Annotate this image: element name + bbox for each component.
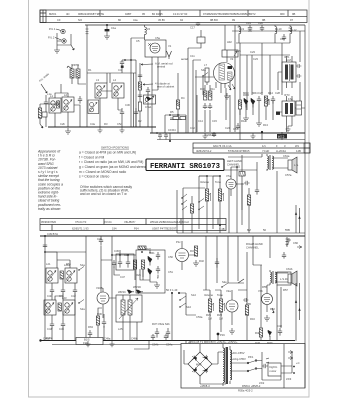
svg-text:C19: C19 xyxy=(246,21,251,25)
wire: pickup screen box xyxy=(57,33,71,47)
svg-text:R55: R55 xyxy=(262,285,267,289)
wire: coil returns to chassis xyxy=(46,105,80,127)
IF can C14 box xyxy=(116,254,134,270)
svg-text:and on and so on closed on T w: and on and so on closed on T w xyxy=(80,192,127,196)
svg-text:r = Closed on radio (as on MW,: r = Closed on radio (as on MW, LW and FM… xyxy=(79,160,143,164)
diode MR8 xyxy=(127,290,134,294)
wire: chassis bus right (top section) xyxy=(150,132,305,134)
wire: VR7a to grid xyxy=(72,78,86,84)
capacitor C8 xyxy=(170,115,182,120)
svg-text:V1: V1 xyxy=(168,44,172,48)
wire: pot feeds xyxy=(199,176,220,233)
svg-text:C24b R9: C24b R9 xyxy=(205,133,216,137)
speaker LS1b xyxy=(288,274,292,283)
svg-text:C66: C66 xyxy=(293,241,298,245)
svg-text:RV2: RV2 xyxy=(217,313,223,317)
svg-text:CF: CF xyxy=(57,18,61,22)
wire: bottom bus second xyxy=(52,344,181,346)
svg-text:RIGHT-HAND: RIGHT-HAND xyxy=(246,242,263,246)
svg-text:trally as shown: trally as shown xyxy=(38,207,61,211)
svg-text:IFT3: IFT3 xyxy=(284,93,290,97)
svg-text:L2: L2 xyxy=(64,93,67,97)
trimmer C3 xyxy=(42,112,47,117)
diode MR6 xyxy=(268,330,272,337)
svg-text:BJ 94/95: BJ 94/95 xyxy=(152,12,163,16)
label cluster: top section component refs xyxy=(47,36,290,130)
capacitor C52 xyxy=(155,328,159,338)
wire: L25 returns xyxy=(123,295,137,341)
capacitor C5/4 xyxy=(262,364,268,368)
resistor R61 xyxy=(60,271,63,279)
switch S1a xyxy=(79,267,84,271)
svg-text:L1a: L1a xyxy=(47,92,52,96)
svg-text:aerial: aerial xyxy=(181,57,188,61)
svg-text:a = Closed at 4PM (as on MW an: a = Closed at 4PM (as on MW and LW) xyxy=(79,151,136,155)
ground: V2a cathode xyxy=(229,328,235,334)
wire: control feeds xyxy=(206,236,247,290)
svg-text:s = Closed on stereo: s = Closed on stereo xyxy=(79,175,109,179)
svg-text:SWITCH POSITIONS: SWITCH POSITIONS xyxy=(101,146,129,150)
svg-text:F64: F64 xyxy=(134,226,139,230)
svg-text:S1a: S1a xyxy=(80,263,85,267)
potentiometer VR1 xyxy=(38,108,41,118)
potentiometer RV1 xyxy=(208,299,211,312)
wire: switch to pots xyxy=(186,305,196,315)
capacitor C5b xyxy=(148,43,151,46)
resistor R4 xyxy=(176,100,179,109)
svg-text:MR5: MR5 xyxy=(196,363,202,367)
capacitor C20 xyxy=(260,25,264,31)
svg-text:C42: C42 xyxy=(71,294,76,298)
wire: V10B bias xyxy=(98,308,104,341)
svg-text:C46d: C46d xyxy=(43,337,50,341)
junction: det dots xyxy=(111,254,113,256)
coil L12 xyxy=(289,25,292,36)
svg-text:C47: C47 xyxy=(120,275,125,279)
svg-text:C5a: C5a xyxy=(155,36,160,40)
coil L3 (osc coil box) xyxy=(95,83,107,98)
svg-text:97/2B29/06/7BUR3B07D/B05U0995U: 97/2B29/06/7BUR3B07D/B05U0995U/B0T2 xyxy=(203,12,256,16)
wire: det row links xyxy=(101,255,143,280)
wire: audio top rail xyxy=(228,154,262,157)
svg-text:C4: C4 xyxy=(118,68,122,72)
capacitor C19 xyxy=(248,25,252,31)
capacitor C30 xyxy=(120,108,124,127)
capacitor C27 xyxy=(257,96,261,104)
svg-text:9B BO: 9B BO xyxy=(210,18,218,22)
coil L23 (AM coil) xyxy=(44,300,56,315)
wire: tuner returns xyxy=(45,252,75,341)
svg-text:A02: A02 xyxy=(227,40,232,44)
label: FERRANTI SRG1073 model box xyxy=(146,159,224,171)
capacitor C44 xyxy=(50,315,54,329)
svg-text:5T/6UNF/2T6BU5: 5T/6UNF/2T6BU5 xyxy=(228,149,250,153)
link box B1 xyxy=(76,338,103,345)
ground: detector xyxy=(243,115,249,121)
svg-text:L10: L10 xyxy=(277,27,282,31)
svg-text:motor: motor xyxy=(270,369,277,373)
svg-text:C34: C34 xyxy=(97,237,102,241)
wire: AGC rail vertical xyxy=(86,25,88,127)
svg-text:F.M.: F.M. xyxy=(288,97,293,101)
wire: coupling net xyxy=(249,162,259,233)
svg-text:C44: C44 xyxy=(47,327,52,331)
coil L9 xyxy=(238,25,241,36)
switch S2a xyxy=(79,300,84,304)
svg-text:50 F 1.4F: 50 F 1.4F xyxy=(166,288,178,292)
svg-text:C15: C15 xyxy=(212,119,217,123)
capacitor C6 xyxy=(138,75,142,77)
capacitor C47 xyxy=(118,258,122,268)
ground: chassis stubs xyxy=(86,127,256,347)
svg-text:C41: C41 xyxy=(59,294,64,298)
junction: HT bus dot xyxy=(44,235,46,237)
svg-text:P16: P16 xyxy=(220,333,225,337)
diode MR2 xyxy=(148,268,152,278)
wire: speaker leads right xyxy=(275,273,288,282)
wire: bottom bus xyxy=(40,340,295,342)
wire: right vertical pair xyxy=(134,60,137,127)
secondary loop box xyxy=(296,101,302,115)
wire: mains step xyxy=(134,341,149,349)
wire: output arrows xyxy=(288,351,293,360)
resistor R6 xyxy=(180,117,186,120)
resistor R5 xyxy=(173,117,179,120)
coil L2 (tuning coil box) xyxy=(62,97,74,112)
table: component chart strip (top) xyxy=(40,10,307,23)
potentiometer R14 xyxy=(264,96,267,106)
svg-text:80: 80 xyxy=(118,18,121,22)
svg-text:CHANNEL: CHANNEL xyxy=(246,246,259,250)
capacitor C4a blob xyxy=(121,66,124,68)
switch S1b xyxy=(199,199,204,210)
svg-text:C48: C48 xyxy=(277,324,282,328)
wire: secondary wiring xyxy=(230,352,262,380)
capacitor C28 xyxy=(271,96,275,104)
wire: det links xyxy=(148,93,186,133)
svg-text:R32: R32 xyxy=(199,259,204,263)
tube V2 (frequency changer) xyxy=(214,63,235,84)
fuse F5/2 xyxy=(248,369,256,372)
capacitor C41 xyxy=(61,279,65,295)
svg-text:V2a: V2a xyxy=(226,289,231,293)
coil L21 (FM RF coil) xyxy=(46,268,58,283)
svg-text:Volume: Volume xyxy=(204,293,213,297)
IF transformer L8 (above V2) xyxy=(222,50,238,57)
capacitor C46 xyxy=(88,330,92,338)
svg-text:96BU24P2K8T 9B/TE: 96BU24P2K8T 9B/TE xyxy=(78,12,104,16)
wire: PSU feeds xyxy=(186,341,190,344)
svg-text:W5/H0.29/B6/A5H2A0/H0.63 H2: W5/H0.29/B6/A5H2A0/H0.63 H2 xyxy=(150,220,189,224)
wire: mid bus above bottom section xyxy=(40,235,305,237)
svg-text:94BT: 94BT xyxy=(125,12,132,16)
resistor R24 xyxy=(133,260,136,269)
capacitor C38 xyxy=(43,245,47,247)
svg-text:55B: 55B xyxy=(285,228,290,232)
capacitor C63 xyxy=(282,252,286,259)
svg-text:C5: C5 xyxy=(136,39,140,43)
wire: switch loop lines xyxy=(236,43,290,132)
svg-text:NO: NO xyxy=(78,18,82,22)
svg-text:R61: R61 xyxy=(66,262,71,266)
switch S2e xyxy=(222,283,228,287)
resistor R40 xyxy=(190,204,193,213)
svg-text:g = Closed on gram (as on MONO: g = Closed on gram (as on MONO and stere… xyxy=(79,165,147,169)
svg-text:7/5.04 T0: 7/5.04 T0 xyxy=(75,220,87,224)
svg-text:C5c: C5c xyxy=(117,122,122,126)
wire: right channel rails xyxy=(253,236,270,265)
ratio detector screen box xyxy=(136,250,165,293)
svg-text:P1c: P1c xyxy=(176,240,181,244)
label cluster: bottom section component refs xyxy=(46,247,275,345)
svg-text:L7: L7 xyxy=(204,63,207,67)
wire: V2 anode drop xyxy=(224,25,226,50)
capacitor C4 xyxy=(120,60,124,73)
svg-text:S2e: S2e xyxy=(222,280,227,284)
FM tuner unit box xyxy=(145,40,166,57)
svg-text:95: 95 xyxy=(142,12,145,16)
transformer T2b (output) xyxy=(270,270,272,285)
coil L1 (tuning coil box) xyxy=(49,98,61,113)
svg-text:C54a: C54a xyxy=(166,343,173,347)
svg-text:C27: C27 xyxy=(258,91,263,95)
capacitor C35 xyxy=(112,260,116,268)
junction: +C terminal 2 xyxy=(293,372,295,374)
resistor R44 xyxy=(239,172,245,177)
svg-text:MR6: MR6 xyxy=(267,341,273,345)
wire: V2 cathode arrows xyxy=(228,84,235,90)
power supply unit enclosure xyxy=(181,344,305,389)
resistor R10 xyxy=(204,91,207,100)
capacitor C15 xyxy=(208,103,212,109)
svg-text:R48: R48 xyxy=(255,341,260,345)
svg-text:7.4B: 7.4B xyxy=(219,227,225,231)
svg-text:DC-C55V: DC-C55V xyxy=(233,351,245,355)
svg-text:MR3: MR3 xyxy=(243,91,249,95)
label +C arrow xyxy=(297,246,302,249)
svg-text:V10B: V10B xyxy=(96,286,103,290)
svg-text:45 86: 45 86 xyxy=(158,18,165,22)
svg-text:05/963/7820: 05/963/7820 xyxy=(41,220,56,224)
svg-text:4M61/97CL2: 4M61/97CL2 xyxy=(196,149,212,153)
wire: osc feedback xyxy=(197,82,210,132)
svg-text:L9: L9 xyxy=(241,27,244,31)
svg-text:194: 194 xyxy=(112,226,117,230)
svg-text:C49b: C49b xyxy=(131,337,138,341)
svg-text:rear of cabinet: rear of cabinet xyxy=(157,85,174,89)
svg-text:99: 99 xyxy=(232,18,235,22)
svg-text:C20: C20 xyxy=(258,21,263,25)
svg-text:S4a: S4a xyxy=(201,68,206,72)
transformer T2a (output) xyxy=(267,154,269,171)
svg-text:C45: C45 xyxy=(59,327,64,331)
socket PU1 xyxy=(61,29,65,33)
potentiometer RV2 xyxy=(219,299,222,312)
svg-text:LEFT-HAND: LEFT-HAND xyxy=(227,159,242,163)
resistor R1a xyxy=(57,101,60,108)
svg-text:L21: L21 xyxy=(46,262,51,266)
svg-text:m = Closed on MONO and radio: m = Closed on MONO and radio xyxy=(79,170,126,174)
label HT2 xyxy=(277,134,287,139)
wire: feedback arrows xyxy=(295,212,301,219)
capacitor C10 xyxy=(146,87,150,94)
coil L2b (wave band coil) xyxy=(88,100,99,114)
capacitor C54c xyxy=(151,334,155,341)
capacitor C40 xyxy=(50,283,54,295)
wire: C38 link rail xyxy=(45,251,86,253)
svg-text:R48: R48 xyxy=(255,331,260,335)
svg-text:R52: R52 xyxy=(270,307,275,311)
wire: osc link y60 xyxy=(122,59,136,61)
wire: PSU internal rails xyxy=(184,344,292,388)
diode MR3 xyxy=(244,98,248,108)
svg-text:P.U.2: P.U.2 xyxy=(48,36,55,40)
capacitor C48 xyxy=(278,328,282,336)
svg-text:R1: R1 xyxy=(88,68,92,72)
junction: bus left dot xyxy=(39,339,41,341)
wire: right HT verticals xyxy=(290,25,305,140)
wire: HT drop right xyxy=(276,171,278,233)
wire: feedback pair right xyxy=(296,283,300,341)
wire: V2a plate load xyxy=(218,279,247,341)
svg-text:L5: L5 xyxy=(147,27,150,31)
junction: P16 xyxy=(217,333,220,336)
wire: speaker leads xyxy=(272,158,288,168)
svg-text:V2: V2 xyxy=(230,57,234,61)
svg-text:R5/8-b +B5/8-d: R5/8-b +B5/8-d xyxy=(242,384,261,388)
svg-text:R13: R13 xyxy=(263,123,268,127)
svg-text:L12: L12 xyxy=(292,28,297,32)
tube V5 (AF amp) xyxy=(176,249,189,262)
svg-text:C1a: C1a xyxy=(111,26,116,30)
svg-text:R57: R57 xyxy=(283,288,288,292)
junction: AF node xyxy=(219,224,221,226)
wire: left rail xyxy=(45,236,86,341)
text: switch positions legend xyxy=(79,146,147,196)
transformer T1 (mains) xyxy=(223,348,225,382)
diode MR4 xyxy=(251,98,255,108)
svg-text:R24: R24 xyxy=(136,273,141,277)
resistor R12 xyxy=(238,100,241,109)
svg-text:L4: L4 xyxy=(113,78,116,82)
wire: bridge connections xyxy=(184,344,218,384)
svg-text:ACg-C55V: ACg-C55V xyxy=(233,357,246,361)
ground: chassis left xyxy=(65,128,71,134)
wire: AGC takeoff left xyxy=(40,104,59,124)
svg-text:C24: C24 xyxy=(225,126,230,130)
svg-text:S1d: S1d xyxy=(191,293,196,297)
coil L24 (AM coil) xyxy=(63,300,75,315)
svg-text:LL20/4A: LL20/4A xyxy=(276,149,286,153)
resistor R48 xyxy=(259,328,262,337)
coil L17 xyxy=(286,237,289,247)
svg-text:WR3C: WR3C xyxy=(118,290,126,294)
wire: right pots wiring xyxy=(203,236,238,341)
svg-text:C14: C14 xyxy=(198,119,203,123)
junction: det line dots xyxy=(169,114,171,116)
ground: V5 xyxy=(193,260,199,266)
resistor R47a xyxy=(247,195,250,205)
wire: motor feeds xyxy=(266,358,292,373)
aerial socket box xyxy=(197,37,205,43)
resistor R62 xyxy=(58,303,61,311)
wire: ratio line vertical xyxy=(177,73,179,133)
svg-text:4D: 4D xyxy=(66,12,69,16)
svg-text:C36: C36 xyxy=(114,249,119,253)
svg-text:C11: C11 xyxy=(190,54,195,58)
svg-text:960: 960 xyxy=(280,12,285,16)
ground: IFT2 xyxy=(286,126,291,132)
svg-text:R3: R3 xyxy=(104,122,108,126)
svg-text:R4: R4 xyxy=(181,96,185,100)
wire: far right rail xyxy=(304,140,306,388)
svg-text:62/65/71 1 93: 62/65/71 1 93 xyxy=(72,226,89,230)
svg-text:C22: C22 xyxy=(280,37,285,41)
svg-text:C30: C30 xyxy=(125,103,130,107)
wire: IFT2 leads xyxy=(280,96,305,132)
svg-text:CHANNEL: CHANNEL xyxy=(227,163,240,167)
ground: V2 cathode xyxy=(224,93,230,99)
wire: coil box returns xyxy=(100,73,122,127)
svg-text:R11: R11 xyxy=(210,87,215,91)
wire: top HT bus xyxy=(85,24,305,26)
wire: cathode arrow xyxy=(272,308,274,313)
svg-text:YCHF: YCHF xyxy=(262,149,270,153)
rectifier bridge MR5 xyxy=(188,352,212,376)
svg-text:R37 C52a S2b: R37 C52a S2b xyxy=(152,322,170,326)
wire: aerial arrows xyxy=(141,64,153,86)
wire: feedback arrowheads xyxy=(295,300,301,311)
svg-text:S2a: S2a xyxy=(80,307,85,311)
wire: right channel verticals xyxy=(261,265,281,341)
wire: IFT1 leads xyxy=(278,56,292,90)
svg-text:L5/3: L5/3 xyxy=(286,377,292,381)
capacitor C53 xyxy=(166,328,170,338)
wire: aerial coil top feeds xyxy=(55,84,68,98)
capacitor C25 xyxy=(296,64,301,68)
svg-text:+C: +C xyxy=(296,361,300,365)
capacitor C51 xyxy=(156,266,160,274)
svg-text:R63: R63 xyxy=(88,325,93,329)
svg-text:C3a: C3a xyxy=(90,122,95,126)
wire: L5 feed xyxy=(131,38,145,73)
svg-text:R16: R16 xyxy=(250,317,255,321)
fuse F5/1 xyxy=(248,361,256,364)
svg-text:V7b: V7b xyxy=(258,289,263,293)
ground: pickup screen xyxy=(54,47,60,53)
svg-text:C57: C57 xyxy=(233,127,238,131)
svg-text:IFT1: IFT1 xyxy=(284,55,290,59)
table: circuit reference strip (mid left) xyxy=(40,219,226,231)
coil L25 (IF screen box) xyxy=(116,295,142,322)
capacitor C2 xyxy=(44,95,48,112)
capacitor C25b xyxy=(296,74,301,78)
diode MR1 xyxy=(148,256,152,266)
junction: chassis dot xyxy=(261,131,263,133)
wire: P.U. leads arrow xyxy=(41,84,47,93)
capacitor C31 xyxy=(134,108,138,127)
coil L4 (osc coil box) xyxy=(112,83,124,98)
svg-text:V6L/B0T/: V6L/B0T/ xyxy=(124,220,135,224)
switch S12a xyxy=(182,194,187,210)
svg-text:C61b: C61b xyxy=(286,267,293,271)
svg-text:U5/67 P4T7B23G97: U5/67 P4T7B23G97 xyxy=(152,226,177,230)
wire: screen feed verticals xyxy=(193,60,230,133)
wire: V2 electrode leads xyxy=(195,50,230,95)
svg-text:C7a1: C7a1 xyxy=(145,105,152,109)
svg-text:50: 50 xyxy=(263,228,266,232)
ground: detector2 xyxy=(256,120,262,126)
